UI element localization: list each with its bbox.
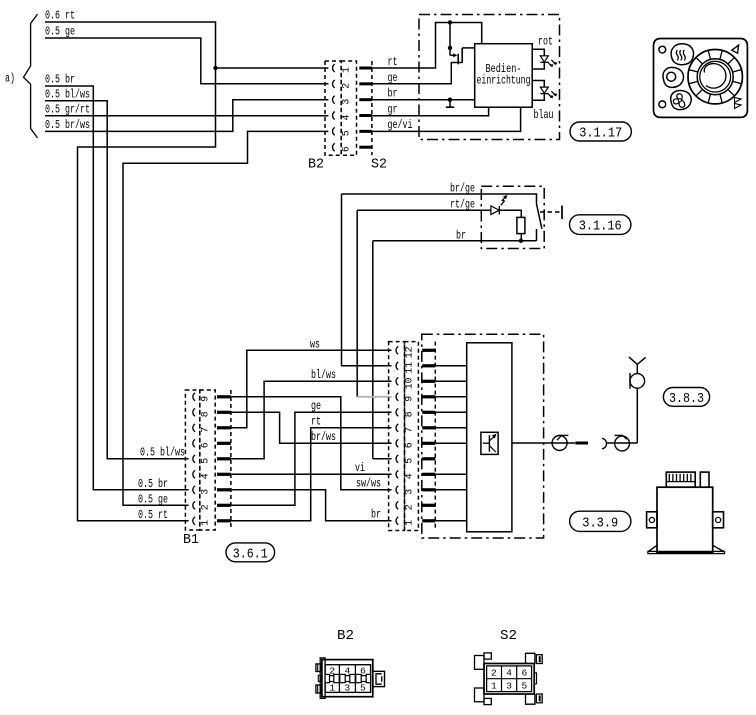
node br/ground [448,98,452,102]
antenna A1 [636,364,638,373]
reference oval 3.1.17 [570,122,631,141]
svg-text:sw/ws: sw/ws [356,476,381,490]
12pin contact 6 [396,439,398,447]
wire 12pin pin 8 to unit [435,411,466,413]
wire 12pin pin 4 to unit [435,473,466,475]
wire 12pin pin 11 to unit [435,365,466,367]
12pin contact 2 [396,501,398,509]
svg-text:S2: S2 [500,628,517,644]
antenna coupling circle [630,374,645,389]
wire antenna output [512,442,575,444]
12pin pin 6 [422,442,435,445]
svg-text:4: 4 [506,668,512,679]
receiver module illustration [657,487,713,552]
12pin number column [405,342,419,531]
reference oval 3.6.1 [226,543,275,562]
S2 pin 4 [359,114,372,117]
wire 12pin pin 6 to unit [435,442,466,444]
12pin pin 2 [422,504,435,507]
B2 contact 5 [333,127,335,135]
svg-text:5: 5 [341,130,352,136]
B1 pin 7 [217,426,231,429]
wire br drop to B1 pin5 [372,241,374,459]
coax thick contact [575,442,588,445]
svg-text:11: 11 [403,362,414,374]
12pin pin 7 [422,426,435,429]
12pin contact 4 [396,470,398,478]
svg-text:9: 9 [199,396,210,402]
svg-text:rot: rot [538,35,553,49]
svg-text:ge/vi: ge/vi [388,118,413,132]
B1 number column [200,390,215,530]
dash-dot box 3.1.17 [419,15,560,140]
12pin pin 4 [422,473,435,476]
svg-text:3.1.17: 3.1.17 [579,126,622,142]
B2 latch [373,671,385,686]
S2 pin 6 [359,146,372,149]
svg-text:6: 6 [199,442,210,448]
12pin contact 1 [396,517,398,525]
svg-text:2: 2 [329,665,335,676]
dash-dot box 3.3.9 receiver [422,334,544,538]
node Q1 gate [448,46,452,50]
svg-text:4: 4 [341,114,352,120]
svg-text:ge: ge [388,71,398,85]
B1 contact 8 [193,408,195,416]
fan button [671,90,692,109]
svg-text:9: 9 [403,396,414,402]
control panel illustration [654,39,748,118]
control unit U1 Bedieneinrichtung [475,44,533,107]
svg-text:6: 6 [341,146,352,152]
ground [449,100,451,107]
svg-text:3: 3 [403,489,414,495]
B1 contact 9 [193,393,195,401]
12pin pin 3 [422,488,435,491]
rotary knob [688,49,742,103]
connector B2 female half [325,61,341,155]
svg-text:gr: gr [388,103,398,117]
svg-text:8: 8 [403,411,414,417]
middle button [663,67,684,87]
B1 contact 3 [193,486,195,494]
svg-text:3.1.16: 3.1.16 [579,219,622,235]
coax socket arc [602,438,607,449]
svg-text:1: 1 [403,520,414,526]
B2 contact 1 [333,64,335,72]
svg-text:7: 7 [199,427,210,433]
B2 contact 2 [333,80,335,88]
svg-text:5: 5 [199,458,210,464]
svg-text:2: 2 [491,668,497,679]
svg-text:0.5 bl/ws: 0.5 bl/ws [140,446,185,460]
svg-text:12: 12 [403,346,414,358]
12pin contact 11 [396,362,398,370]
12pin pin 9 [422,395,435,398]
wire ge/vi to B1 pin2 [123,131,328,505]
reference oval 3.8.3 [663,388,709,407]
S2 pin 1 [359,67,372,70]
svg-text:0.5 br: 0.5 br [45,73,75,87]
wire 12pin pin 9 to unit [435,396,466,398]
svg-text:0.5 gr/rt: 0.5 gr/rt [45,103,90,117]
svg-text:2: 2 [341,83,352,89]
svg-text:3: 3 [345,682,351,693]
svg-text:a): a) [5,72,15,86]
heater button [671,44,693,65]
12pin pin 10 [422,380,435,383]
B1 pin 8 [217,411,231,414]
svg-text:vi: vi [355,461,365,475]
connector S2 pin tip dashed edge [371,61,373,155]
svg-text:4: 4 [345,665,351,676]
svg-text:8: 8 [199,411,210,417]
wire grey to 12pin pin9 [357,396,391,398]
svg-text:rt/ge: rt/ge [450,197,475,211]
svg-text:2: 2 [403,504,414,510]
svg-text:B1: B1 [183,532,199,548]
B1 female column [185,390,199,530]
B1 pin 9 [217,395,231,398]
S2 pin 5 [359,130,372,133]
node rt top [448,20,452,24]
coax connector plug [552,436,567,451]
connector B2 face view [322,660,373,697]
knob pointer [732,45,739,53]
12pin contact 12 [396,346,398,354]
B1 pin tip dashed edge [230,390,232,530]
svg-text:2: 2 [199,504,210,510]
svg-text:3.8.3: 3.8.3 [669,391,704,407]
svg-text:ge: ge [311,399,321,413]
svg-text:6: 6 [521,668,527,679]
S2 corner tabs [475,656,485,670]
svg-text:4: 4 [403,473,414,479]
svg-text:br: br [371,507,381,521]
mechanical link dashed [540,211,560,213]
svg-text:br: br [388,87,398,101]
12pin contact 3 [396,486,398,494]
S2 pin 3 [359,98,372,101]
svg-text:4: 4 [199,473,210,479]
svg-text:1: 1 [491,681,497,692]
reference oval 3.1.16 [570,215,631,235]
svg-text:rt: rt [311,414,321,428]
B2 contact 3 [333,96,335,104]
resistor R1 [517,217,525,233]
svg-text:7: 7 [403,427,414,433]
transistor Q1 drain wire [449,23,451,48]
B1 pin 2 [217,504,231,507]
LED blau [532,81,544,88]
dash-dot box 3.1.16 [481,186,544,248]
wire LED to resistor [499,210,521,217]
B1 contact 4 [193,470,195,478]
svg-text:5: 5 [521,681,527,692]
12pin female column [389,342,405,531]
wire 12pin pin 1 to unit [435,520,466,522]
svg-text:3.3.9: 3.3.9 [582,515,618,531]
B1 contact 1 [193,517,195,525]
svg-text:rt: rt [388,55,398,69]
12pin contact 5 [396,455,398,463]
flash arrow [501,196,507,206]
B1 contact 7 [193,424,195,432]
svg-text:blau: blau [534,108,554,122]
svg-text:1: 1 [341,67,352,73]
svg-text:3.6.1: 3.6.1 [233,546,268,562]
svg-text:1: 1 [329,682,335,693]
B1 contact 6 [193,439,195,447]
12pin contact 10 [396,377,398,385]
coax connector socket [606,442,637,444]
12pin pin tip dashed edge [434,342,436,531]
S2 pin 2 [359,82,372,85]
B1 pin 3 [217,488,231,491]
svg-text:0.5 br: 0.5 br [138,477,168,491]
12pin contact 7 [396,424,398,432]
wire rt to B2 pin1 [216,67,329,69]
svg-text:br/ge: br/ge [450,181,475,195]
12pin contact 9 [396,393,398,401]
svg-text:3: 3 [199,489,210,495]
svg-text:1: 1 [199,520,210,526]
svg-text:3: 3 [341,99,352,105]
RF stage symbol [481,432,498,454]
12pin pin 8 [422,411,435,414]
12pin pin 11 [422,364,435,367]
B1 pin 1 [217,519,231,522]
B1 pin 4 [217,473,231,476]
svg-text:br/ws: br/ws [311,430,336,444]
reference oval 3.3.9 [570,511,631,531]
svg-text:0.5 bl/ws: 0.5 bl/ws [45,87,90,101]
fan speed wedge [735,98,742,109]
svg-text:6: 6 [403,442,414,448]
B1 pin 5 [217,457,231,460]
wire 12pin pin 10 to unit [435,380,466,382]
svg-text:einrichtung: einrichtung [477,74,531,88]
svg-text:ws: ws [310,337,320,351]
B1 contact 5 [193,455,195,463]
wire to antenna [636,388,638,443]
svg-text:S2: S2 [371,157,387,173]
svg-text:B2: B2 [337,628,354,644]
wire rt/ge drop [356,210,358,397]
node br junction [519,239,523,243]
wire br drop to 12pin pin5 [373,458,392,460]
12pin pin 1 [422,519,435,522]
wire br/ge drop to 12pin pin11 [342,194,392,366]
receiver inner unit [467,343,512,532]
12pin pin 12 [422,349,435,352]
B2 contact 4 [333,112,335,120]
svg-text:0.5 ge: 0.5 ge [138,492,168,506]
svg-text:B2: B2 [308,157,324,173]
node rt junction [213,66,217,70]
svg-text:5: 5 [360,682,366,693]
B1 contact 2 [193,501,195,509]
svg-text:bl/ws: bl/ws [311,368,336,382]
svg-text:5: 5 [403,458,414,464]
LED D1 [491,206,499,215]
wire 12pin pin 7 to unit [435,427,466,429]
svg-text:3: 3 [506,681,512,692]
switch S1 [536,229,538,241]
svg-text:0.6 rt: 0.6 rt [45,9,75,23]
B2 contact 6 [333,143,335,151]
transistor Q1 [453,53,457,57]
svg-text:10: 10 [403,377,414,389]
svg-text:0.5 br/ws: 0.5 br/ws [45,118,90,132]
svg-text:6: 6 [360,665,366,676]
12pin contact 8 [396,408,398,416]
connector S2 number column [341,61,356,155]
svg-text:0.5 ge: 0.5 ge [45,25,75,39]
B1 pin 6 [217,442,231,445]
12pin pin 5 [422,457,435,460]
harness bracket a) [24,14,38,138]
svg-text:0.5 rt: 0.5 rt [138,508,168,522]
wire 12pin pin 3 to unit [435,489,466,491]
connector S2 face view [484,664,534,695]
